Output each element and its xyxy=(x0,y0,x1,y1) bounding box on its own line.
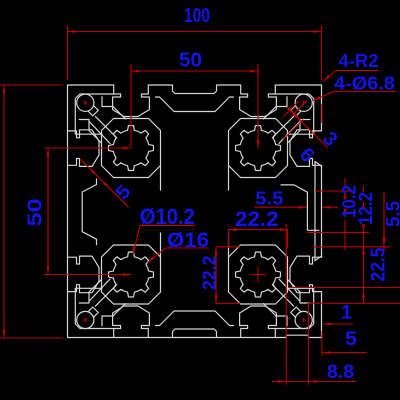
svg-text:100: 100 xyxy=(184,4,210,27)
svg-text:8.8: 8.8 xyxy=(327,362,354,383)
svg-text:Ø16: Ø16 xyxy=(167,229,209,252)
svg-text:22.2: 22.2 xyxy=(199,256,219,291)
svg-text:5.5: 5.5 xyxy=(255,188,283,208)
svg-text:1: 1 xyxy=(341,302,352,323)
svg-text:5: 5 xyxy=(345,329,357,350)
svg-text:4-Ø6.8: 4-Ø6.8 xyxy=(334,73,395,94)
svg-text:50: 50 xyxy=(179,48,202,71)
svg-text:4-R2: 4-R2 xyxy=(339,50,379,71)
svg-text:22.5: 22.5 xyxy=(368,248,390,282)
svg-text:50: 50 xyxy=(24,198,47,226)
svg-text:5.5: 5.5 xyxy=(384,201,400,227)
svg-text:12.2: 12.2 xyxy=(356,192,377,225)
svg-text:22.2: 22.2 xyxy=(235,207,279,231)
svg-text:Ø10.2: Ø10.2 xyxy=(140,204,195,229)
